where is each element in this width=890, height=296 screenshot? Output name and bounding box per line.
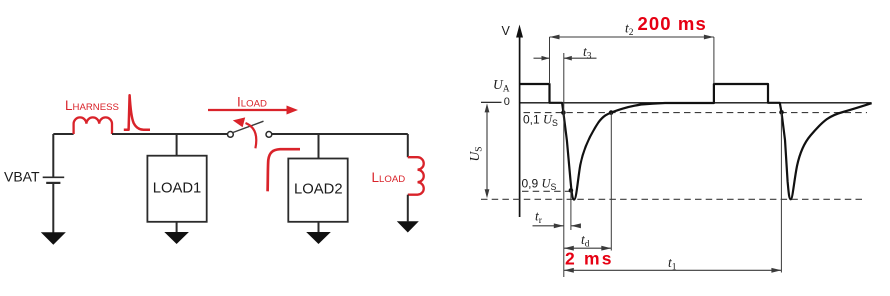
svg-text:VBAT: VBAT xyxy=(4,169,40,185)
svg-text:LOAD2: LOAD2 xyxy=(294,181,343,197)
US bracket dimension xyxy=(485,103,490,198)
switch S1 contacts xyxy=(228,132,272,138)
ground (battery) xyxy=(41,232,66,245)
load LOAD2 box xyxy=(288,159,347,222)
dashed line US peak xyxy=(481,198,866,200)
svg-text:0: 0 xyxy=(504,96,510,108)
wire switch to right bus xyxy=(272,133,408,135)
negative transient icon (red) xyxy=(268,149,300,191)
node dot 0.1US fall crossing pulse2 xyxy=(779,110,784,115)
dimension td xyxy=(564,246,612,251)
extension line td right xyxy=(610,113,612,251)
node dot 0.9US crossing xyxy=(569,188,574,193)
wire bus from inductor to switch xyxy=(112,133,228,135)
inductor LHARNESS xyxy=(74,117,112,134)
node dot 0.1US recovery crossing xyxy=(609,110,614,115)
extension line spike2 xyxy=(780,112,782,272)
wire LLOAD to ground xyxy=(407,195,409,222)
waveform xyxy=(520,84,872,200)
dashed segment 0.9 US xyxy=(522,190,571,192)
battery VBAT xyxy=(43,177,64,183)
0 level tick xyxy=(481,101,502,103)
wire battery to ground xyxy=(52,183,54,233)
wire battery vertical xyxy=(52,134,54,177)
dimension t3 xyxy=(534,56,597,61)
svg-text:V: V xyxy=(502,24,511,38)
node dot 0.1US fall crossing pulse1 xyxy=(561,110,566,115)
switch blade xyxy=(233,121,264,132)
svg-text:200 ms: 200 ms xyxy=(638,13,707,34)
extension line spike1 start xyxy=(563,53,565,277)
extension line UA drop xyxy=(549,37,551,84)
dimension t2 xyxy=(550,35,714,40)
x axis 0 line xyxy=(520,102,872,104)
ground (LLOAD) xyxy=(397,221,419,232)
node junction LOAD2 xyxy=(318,134,320,159)
current arrow ILOAD xyxy=(208,106,298,115)
inductor LLOAD xyxy=(408,157,424,195)
svg-text:2 ms: 2 ms xyxy=(565,249,614,269)
svg-text:LOAD1: LOAD1 xyxy=(153,180,202,196)
ground (LOAD2) xyxy=(306,232,331,244)
switch opening arrow (red arc) xyxy=(233,117,256,148)
dimension t1 xyxy=(564,268,782,273)
extension line pulse2 rise xyxy=(713,37,715,84)
wire LOAD1 to ground xyxy=(176,222,178,232)
y axis V xyxy=(516,25,523,218)
dashed line 0.1 US xyxy=(524,112,868,114)
ground (LOAD1) xyxy=(164,232,189,244)
wire main horizontal bus left segment xyxy=(53,133,73,135)
load LOAD1 box xyxy=(147,156,206,222)
node junction LOAD1 xyxy=(176,134,178,156)
wire LOAD2 to ground xyxy=(318,222,320,232)
transient spike icon (red surge symbol) xyxy=(124,95,150,130)
dimension tr xyxy=(533,223,581,228)
extension line 0.9US point xyxy=(570,190,572,230)
wire to LLOAD branch xyxy=(407,134,409,157)
